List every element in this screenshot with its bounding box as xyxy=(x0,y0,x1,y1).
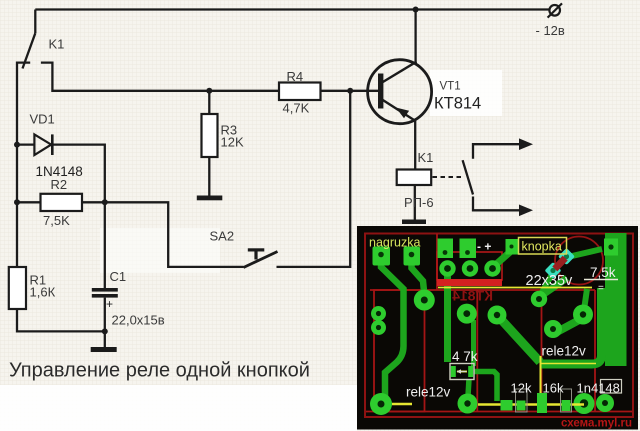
pcb pad P4 xyxy=(544,320,562,338)
resistor R3 xyxy=(202,114,218,157)
node R3 junction xyxy=(206,88,212,94)
pcb bottom right pad xyxy=(596,394,614,412)
pcb trace pad2 diag xyxy=(412,260,425,291)
relay output contact upper xyxy=(473,144,525,159)
pcb teal pad NE xyxy=(558,248,575,265)
PCB photo inset xyxy=(357,226,638,430)
wire K1 upper lead xyxy=(34,10,36,34)
svg-text:Управление реле одной кнопкой: Управление реле одной кнопкой xyxy=(9,360,310,382)
pcb bottom pad big xyxy=(574,393,595,414)
wire R4 to base xyxy=(321,90,384,92)
wire R3 bottom lead xyxy=(208,157,210,196)
pcb silk vertical x541 xyxy=(541,290,543,412)
node base branch xyxy=(347,88,353,94)
pcb diode footprint box xyxy=(601,380,622,394)
node C1 top xyxy=(102,199,108,205)
pcb resistor outline 16k xyxy=(561,389,572,412)
resistor R4 xyxy=(279,83,321,101)
pcb pad nagruzka2 xyxy=(404,247,421,266)
wire R2 to SA2 branch xyxy=(82,202,244,267)
svg-text:схема.myl.ru: схема.myl.ru xyxy=(561,418,632,430)
pcb teal pad SW xyxy=(545,262,562,279)
pcb pad P1 xyxy=(531,291,547,307)
ground C1 xyxy=(91,347,117,352)
svg-text:4,7K: 4,7K xyxy=(283,101,310,116)
pcb yellow dash bottom-left xyxy=(392,403,412,405)
pcb yellow line mid xyxy=(438,287,592,289)
wire diode cathode to node xyxy=(54,145,105,203)
pcb pad top right xyxy=(604,239,618,256)
resistor R2 xyxy=(41,194,83,211)
wire bottom return xyxy=(17,309,105,331)
wire R2 row xyxy=(17,201,41,203)
svg-text:+: + xyxy=(106,297,113,311)
node collector rail xyxy=(413,7,419,13)
pcb silk box transistor xyxy=(437,252,502,280)
pcb yellow vertical xyxy=(540,356,542,400)
capacitor C1 xyxy=(92,288,118,292)
pcb silk vertical x437 top xyxy=(436,234,438,291)
pcb pad nagruzka1 xyxy=(373,247,391,266)
transistor VT1 xyxy=(368,60,432,124)
svg-text:C1: C1 xyxy=(110,269,127,284)
pcb resistor outline 12k xyxy=(516,389,528,412)
svg-text:=: = xyxy=(598,283,604,294)
pcb relay silk circle xyxy=(555,237,603,285)
pcb trace right inner L xyxy=(540,288,602,364)
svg-text:22x35v: 22x35v xyxy=(526,273,574,289)
pcb outer silk frame xyxy=(365,234,633,418)
wire relay coil ground stem xyxy=(414,185,416,220)
wire emitter to relay coil xyxy=(414,120,416,169)
wire diode anode xyxy=(17,143,34,145)
relay output contact lower xyxy=(473,197,525,211)
svg-text:22,0x15в: 22,0x15в xyxy=(112,313,165,328)
pcb trace 47k vertical xyxy=(444,276,451,362)
svg-text:VD1: VD1 xyxy=(30,112,55,127)
pcb pad P2 xyxy=(488,306,507,325)
svg-text:7,5K: 7,5K xyxy=(43,213,70,228)
pcb connector square 3 xyxy=(506,239,519,255)
svg-text:КТ814: КТ814 xyxy=(434,95,481,113)
wire C1 top lead xyxy=(104,202,106,288)
ground relay coil xyxy=(402,220,426,225)
pcb green bar b2 xyxy=(517,401,526,411)
pcb silk rect lower-left xyxy=(374,290,425,412)
svg-text:12k: 12k xyxy=(511,381,532,396)
pcb resistor 47k footprint xyxy=(450,364,474,380)
svg-text:R2: R2 xyxy=(51,177,68,192)
pcb knopka label box xyxy=(519,238,567,255)
svg-text:rele12v: rele12v xyxy=(406,385,451,400)
svg-text:4 7k: 4 7k xyxy=(452,349,478,364)
node C1 bottom xyxy=(102,328,108,334)
pcb trace diag teal to pad xyxy=(540,274,552,296)
svg-text:SA2: SA2 xyxy=(210,229,235,244)
pcb left pad b xyxy=(371,320,386,335)
pcb bottom-left pad xyxy=(370,393,392,415)
svg-text:R4: R4 xyxy=(287,69,304,84)
svg-text:РП-6: РП-6 xyxy=(404,195,434,210)
wire K1 left terminal xyxy=(17,63,30,144)
svg-text:7,5k: 7,5k xyxy=(590,265,616,280)
svg-text:rele12v: rele12v xyxy=(542,344,587,359)
pcb silk line mid xyxy=(370,289,595,291)
pcb transistor red bar xyxy=(437,279,502,286)
svg-text:12K: 12K xyxy=(221,135,244,150)
pcb trace p3 up stub xyxy=(584,289,587,310)
pcb pad P3 xyxy=(573,305,593,325)
relay coil K1 xyxy=(397,170,432,186)
ground R3 xyxy=(197,196,223,201)
pcb trace 47k right xyxy=(474,372,497,402)
svg-text:1n4148: 1n4148 xyxy=(577,381,620,396)
pcb left pad a xyxy=(371,306,386,321)
pcb green bar b4 xyxy=(562,400,571,411)
pcb pad row 1 xyxy=(439,260,455,276)
pcb pad row 3 xyxy=(484,260,500,276)
pcb connector square 1 xyxy=(438,239,454,259)
wire K1 right terminal xyxy=(41,63,279,91)
pcb green bar b1 xyxy=(501,400,513,411)
pcb trace mid stem xyxy=(468,379,469,396)
relay contact K1 arm xyxy=(23,33,36,68)
node R2 left xyxy=(14,199,20,205)
svg-text:K1: K1 xyxy=(49,37,65,52)
wire C1 ground stem xyxy=(104,331,106,347)
pcb pad mid row2 xyxy=(457,304,477,324)
diode VD1 xyxy=(34,134,51,155)
svg-text:16k: 16k xyxy=(543,381,564,396)
node diode anode xyxy=(14,142,20,148)
resistor R1 xyxy=(9,267,26,309)
svg-text:K1: K1 xyxy=(418,150,434,165)
pcb bottom mid pad xyxy=(458,394,478,414)
pcb silk vertical x595 xyxy=(594,290,596,412)
relay actuator dashed link xyxy=(433,176,464,178)
pcb 7,5k underline xyxy=(584,279,618,281)
pcb trace big diagonal xyxy=(497,315,540,362)
pcb board background xyxy=(357,226,638,430)
wire R3 top lead xyxy=(208,91,210,114)
pcb inner silk line bottom xyxy=(366,411,632,413)
pcb trace knopka diag xyxy=(493,252,510,267)
pcb big pad mid-left xyxy=(414,290,435,311)
wire C1 bottom lead xyxy=(104,298,106,332)
svg-text:1,6К: 1,6К xyxy=(30,285,56,300)
wire SA2 right to R4 node xyxy=(277,91,351,267)
pcb trace p3 diag xyxy=(555,318,583,333)
svg-text:- +: - + xyxy=(477,240,491,254)
pcb yellow line rele xyxy=(540,363,596,365)
pcb yellow stem big pad xyxy=(423,301,425,310)
wire collector lead xyxy=(414,10,416,64)
wire top supply rail xyxy=(35,8,549,10)
svg-text:nagruzka: nagruzka xyxy=(369,236,420,250)
pcb silk vertical x477 xyxy=(476,290,478,412)
pcb pad row 2 xyxy=(462,260,478,276)
pcb red diagonal component xyxy=(552,256,567,272)
relay output contact arm xyxy=(463,160,473,194)
pcb trace teal to right column xyxy=(572,249,602,256)
terminal -12v xyxy=(549,5,560,16)
pcb yellow bus bottom xyxy=(478,403,584,405)
svg-text:- 12в: - 12в xyxy=(536,23,565,38)
pcb trace diag pad1 up xyxy=(541,278,567,296)
wire left rail xyxy=(16,144,18,267)
svg-text:КТ814: КТ814 xyxy=(452,288,493,304)
pcb green bar b3 xyxy=(537,393,547,413)
pcb trace left curve to bottom pad xyxy=(381,259,404,400)
svg-text:VT1: VT1 xyxy=(440,81,461,93)
pcb trace right edge column xyxy=(605,233,627,366)
svg-text:knopka: knopka xyxy=(522,240,562,254)
pcb trace pad2 column xyxy=(471,320,476,366)
pcb connector square 2 xyxy=(460,239,477,259)
pcb 47k arrow mark xyxy=(457,369,462,373)
